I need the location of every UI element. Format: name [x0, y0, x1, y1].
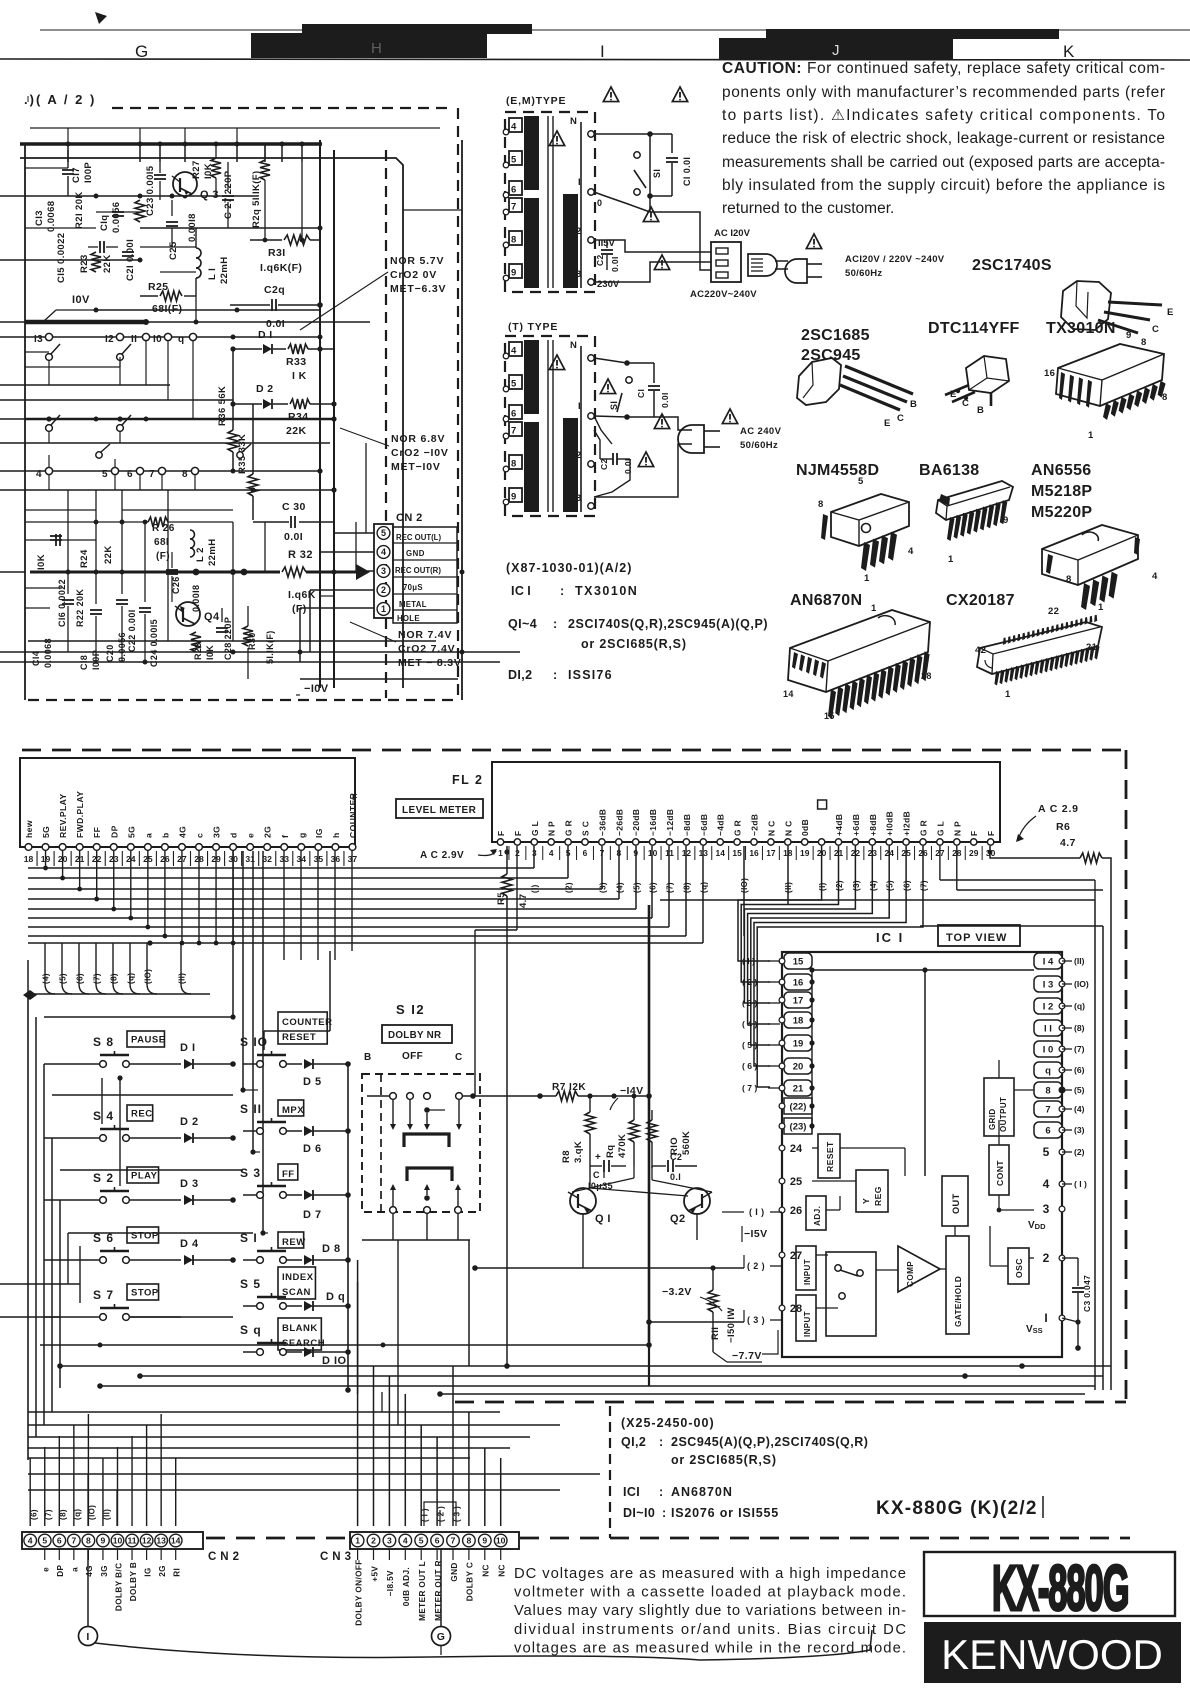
svg-text:N P: N P [547, 821, 557, 836]
svg-text:R 32: R 32 [288, 549, 313, 561]
svg-text:CN 2: CN 2 [396, 512, 423, 524]
svg-text:INDEX: INDEX [282, 1272, 314, 1283]
wire rows mid [25, 384, 170, 386]
svg-text:C20: C20 [105, 644, 115, 662]
svg-text:8: 8 [1141, 337, 1147, 348]
svg-text:N: N [570, 340, 577, 351]
svg-text:.)( A / 2 ): .)( A / 2 ) [24, 92, 96, 107]
svg-text:0.0I: 0.0I [284, 531, 303, 543]
svg-text:(7): (7) [666, 882, 675, 893]
package NJM4558D DIP8 body [831, 494, 909, 546]
svg-text:32: 32 [262, 854, 272, 864]
S12 slider bracket upper [404, 1134, 449, 1147]
svg-text:R27: R27 [191, 160, 202, 179]
svg-text:D 2: D 2 [256, 383, 274, 395]
svg-text:2: 2 [371, 1536, 376, 1546]
svg-text:AN6556: AN6556 [1031, 462, 1092, 479]
svg-text:bly insulated from the supply: bly insulated from the supply circuit) b… [722, 177, 1165, 194]
left block top stub row [30, 127, 440, 129]
leader NOR 7.4V [350, 622, 396, 642]
package 2SC1740S leads [1098, 320, 1138, 333]
IC1 GATE/HOLD box [946, 1236, 969, 1334]
svg-text:−I5V: −I5V [744, 1228, 768, 1240]
svg-text:4G: 4G [177, 826, 187, 838]
IC1 contact switch box [826, 1252, 876, 1336]
IC1 CONT box [989, 1145, 1009, 1195]
package CX20187 pins bottom [995, 671, 1000, 686]
capacitor C23 0.0015 [154, 174, 166, 176]
svg-text:6: 6 [1045, 1126, 1050, 1137]
transformer EM primary core black [524, 116, 539, 190]
svg-text:A C 2.9: A C 2.9 [1038, 803, 1079, 815]
svg-text:8: 8 [467, 1536, 472, 1546]
svg-text:18: 18 [24, 854, 34, 864]
svg-text:MET−6.3V: MET−6.3V [390, 283, 446, 295]
svg-text:7: 7 [1045, 1105, 1050, 1116]
capacitor C2 0.1 [667, 1160, 669, 1172]
ruler black bar J upper slab [766, 29, 1059, 39]
svg-text:I: I [600, 42, 605, 61]
svg-text:(IO): (IO) [88, 1505, 97, 1520]
svg-text:I: I [86, 1631, 89, 1643]
node circle I [87, 1549, 89, 1626]
resistor R36 56K [232, 349, 234, 430]
svg-text:II: II [131, 334, 137, 345]
svg-text:F: F [969, 830, 979, 836]
lower dashed border right [1125, 750, 1128, 1402]
svg-text::: : [659, 1485, 664, 1499]
IC1 right pin boxes [1034, 953, 1062, 969]
svg-text:230V: 230V [597, 279, 620, 290]
svg-text:B: B [910, 399, 917, 410]
svg-text::: : [560, 584, 565, 598]
svg-text:22K: 22K [102, 254, 113, 273]
T warning triangles [600, 379, 615, 394]
transistor Q3 [173, 172, 197, 196]
svg-text:5: 5 [511, 155, 517, 166]
svg-text:BA6138: BA6138 [919, 462, 980, 479]
svg-text:I: I [578, 177, 581, 188]
svg-text:GND: GND [406, 549, 425, 558]
svg-text:R36 56K: R36 56K [217, 386, 228, 426]
svg-text:QI,2: QI,2 [621, 1435, 646, 1449]
svg-text:0.0I: 0.0I [660, 392, 670, 408]
svg-text:2G: 2G [158, 1565, 167, 1577]
svg-text:S I: S I [240, 1231, 258, 1245]
svg-text:7: 7 [511, 202, 516, 213]
svg-text:F: F [986, 830, 996, 836]
wire pin30 to R6 [990, 846, 1080, 858]
svg-text:reduce the risk of electric sh: reduce the risk of electric shock, leaka… [722, 130, 1165, 147]
capacitor C25 0.0018 [166, 221, 178, 223]
svg-text:68I(F): 68I(F) [152, 303, 182, 315]
svg-text:FL 2: FL 2 [452, 773, 483, 787]
verticals to CN2 [29, 1458, 31, 1526]
svg-text:F: F [352, 792, 358, 802]
svg-text:−16dB: −16dB [648, 809, 658, 836]
EM C1 capacitor 0.01 [650, 133, 672, 135]
svg-text:ponents only with manufacturer: ponents only with manufacturer’s recomme… [722, 84, 1165, 101]
svg-text:5: 5 [381, 528, 386, 538]
svg-text:−I0V: −I0V [304, 683, 329, 695]
svg-text:7: 7 [149, 469, 155, 480]
switch levers row 4-8 [96, 452, 102, 458]
svg-text:+8dB: +8dB [868, 814, 878, 836]
svg-text:VSS: VSS [1026, 1324, 1043, 1335]
svg-text:R6: R6 [1056, 821, 1070, 833]
svg-text:1: 1 [355, 1536, 360, 1546]
svg-text:FF: FF [92, 827, 102, 838]
svg-text:KX-880G (K)(2/2: KX-880G (K)(2/2 [876, 1498, 1038, 1519]
AC plug symbol T [678, 425, 704, 453]
svg-text:DI,2: DI,2 [508, 668, 533, 682]
solid wire vertical x462 [461, 140, 463, 700]
svg-text:(8): (8) [59, 1509, 68, 1520]
svg-text:(q): (q) [1074, 1001, 1085, 1011]
svg-text:DP: DP [109, 825, 119, 838]
svg-text:REG: REG [873, 1186, 883, 1206]
svg-text:21: 21 [793, 1084, 804, 1095]
svg-text:KENWΟOD: KENWΟOD [941, 1631, 1163, 1678]
R8 3.9K resistor [589, 1096, 591, 1112]
svg-text:RII: RII [710, 1327, 721, 1340]
svg-text:E: E [884, 418, 891, 429]
svg-text:S q: S q [240, 1323, 262, 1337]
svg-text:0.0068: 0.0068 [46, 201, 57, 232]
svg-text:BLANK: BLANK [282, 1323, 318, 1334]
capacitor C27 220P [222, 195, 234, 197]
svg-text:AN6870N: AN6870N [790, 592, 862, 609]
svg-text:(T) TYPE: (T) TYPE [508, 321, 558, 333]
IC1 ADJ box [806, 1196, 826, 1230]
svg-text:D I: D I [258, 329, 273, 341]
svg-text:METAL: METAL [399, 600, 427, 609]
T C2 capacitor [612, 453, 614, 465]
package TX3010N DIP16 body [1056, 344, 1164, 406]
svg-text:S 7: S 7 [93, 1288, 114, 1302]
wire mesh extra density lower left [28, 1473, 600, 1475]
diode D7 [304, 1190, 313, 1200]
diode D5 [304, 1059, 313, 1069]
Q1 Q2 cross coupling wires [590, 1188, 688, 1196]
svg-text:IC I: IC I [511, 584, 531, 598]
package 2SC1740S TO-92 body [1061, 281, 1111, 330]
svg-text:G R: G R [733, 820, 743, 836]
svg-text:D 6: D 6 [303, 1143, 322, 1155]
svg-text:I2: I2 [105, 334, 114, 345]
A/2 dashed border top [112, 107, 452, 109]
svg-text:(X87-1030-01)(A/2): (X87-1030-01)(A/2) [506, 561, 632, 575]
svg-text:S II: S II [240, 1102, 262, 1116]
R9 470K resistor [633, 1096, 635, 1120]
svg-text:S 4: S 4 [93, 1109, 114, 1123]
svg-text:TX3010N: TX3010N [1046, 320, 1116, 337]
svg-text:0.0I: 0.0I [610, 256, 620, 272]
svg-text:NOR 7.4V: NOR 7.4V [398, 629, 452, 641]
resistor R25 681(F) [160, 291, 182, 301]
svg-text:17: 17 [766, 848, 776, 858]
svg-text:1: 1 [381, 604, 386, 614]
svg-text:R2q 5I.IK(F): R2q 5I.IK(F) [251, 170, 262, 228]
svg-text::: : [659, 1435, 664, 1449]
svg-text:RI: RI [173, 1568, 182, 1577]
transistor Q2 [684, 1188, 710, 1214]
svg-text:(3): (3) [852, 880, 861, 891]
svg-text:0dB: 0dB [800, 819, 810, 836]
AC plug symbol EM [785, 259, 807, 283]
svg-text:G: G [135, 42, 148, 61]
svg-text:16: 16 [1044, 368, 1055, 379]
T wires [594, 416, 627, 417]
svg-text:CrO2 −I0V: CrO2 −I0V [391, 447, 449, 459]
diode output vertical bus right col [347, 1064, 349, 1390]
svg-text:a: a [71, 1567, 80, 1572]
svg-text:(5): (5) [633, 882, 642, 893]
IC1 OUT box [942, 1176, 968, 1226]
wire thick bundle bottom elbow [648, 1345, 650, 1386]
S12 upper contacts [390, 1093, 397, 1100]
svg-text:g: g [297, 832, 307, 838]
svg-text:14: 14 [783, 689, 794, 699]
svg-text:INPUT: INPUT [803, 1259, 812, 1285]
pins row 13-9 [25, 336, 322, 338]
svg-text:R24: R24 [79, 549, 90, 568]
T S1 switch [594, 358, 627, 363]
svg-text:S I2: S I2 [396, 1002, 425, 1017]
svg-text:DC voltages are as measure: DC voltages are as measured with a high … [514, 1566, 906, 1582]
svg-text:(23): (23) [790, 1122, 807, 1133]
svg-text:(7): (7) [920, 880, 929, 891]
T wires to plug [654, 417, 692, 430]
svg-text:GATE/HOLD: GATE/HOLD [954, 1276, 963, 1327]
svg-text:−20dB: −20dB [631, 809, 641, 836]
svg-text:8: 8 [511, 459, 516, 470]
svg-text:DOLBY ON/OFF: DOLBY ON/OFF [354, 1559, 363, 1626]
svg-text:CrO2 0V: CrO2 0V [390, 269, 437, 281]
svg-text:S C: S C [581, 821, 591, 836]
svg-text:KX-880G: KX-880G [992, 1552, 1128, 1624]
svg-text:C: C [962, 398, 969, 409]
svg-text:I00P: I00P [83, 162, 94, 183]
svg-text:S 3: S 3 [240, 1166, 261, 1180]
svg-text:H: H [371, 40, 382, 57]
svg-text:q: q [1045, 1066, 1051, 1077]
junction dots upper [138, 142, 143, 147]
svg-text:11: 11 [128, 1536, 137, 1546]
svg-text:6: 6 [511, 185, 516, 196]
svg-text:0.I: 0.I [670, 1172, 681, 1182]
block solid top border [20, 158, 403, 688]
svg-text:d: d [229, 832, 239, 838]
svg-text:Values may vary slightly d: Values may vary slightly due to variatio… [514, 1603, 906, 1619]
svg-text:DOLBY B/C: DOLBY B/C [114, 1563, 123, 1611]
svg-text:NOR 5.7V: NOR 5.7V [390, 255, 444, 267]
keyboard pin drop wires [45, 851, 47, 868]
top thick bus [20, 142, 322, 145]
svg-text:3: 3 [381, 566, 386, 576]
svg-text:0.00I8: 0.00I8 [191, 585, 201, 612]
IC1 OSC box [1008, 1248, 1029, 1284]
svg-text:( 6 ): ( 6 ) [742, 1061, 757, 1071]
svg-text:ACI20V / 220V ~240V: ACI20V / 220V ~240V [845, 254, 945, 265]
resistor R21 20K [135, 200, 145, 222]
ruler black bar H upper slab [302, 24, 532, 34]
lower bus horizontals [60, 1365, 1111, 1367]
transformer T primary core black [524, 340, 539, 414]
svg-text:5I.IK(F): 5I.IK(F) [265, 630, 275, 664]
EM S1 switch [594, 133, 650, 135]
svg-text:8: 8 [1162, 392, 1168, 403]
svg-text:FF: FF [282, 1169, 295, 1180]
svg-text:DOLBY NR: DOLBY NR [388, 1030, 441, 1041]
svg-text:4: 4 [549, 848, 554, 858]
svg-text:LEVEL METER: LEVEL METER [402, 805, 477, 816]
svg-text:(II): (II) [178, 973, 187, 984]
svg-text:AN6870N: AN6870N [671, 1485, 733, 1499]
extra junction dots left block [66, 142, 71, 147]
svg-text:+5V: +5V [370, 1566, 379, 1582]
svg-text:CI: CI [636, 389, 646, 398]
svg-text:DOLBY C: DOLBY C [466, 1562, 475, 1602]
svg-text:RESET: RESET [282, 1032, 316, 1043]
transformer T core separator lines [547, 340, 549, 512]
S12 wiring to bus [367, 1095, 389, 1097]
package DTC114YFF body [966, 356, 1009, 393]
svg-text:(2): (2) [835, 880, 844, 891]
ruler corner mark [95, 12, 107, 24]
svg-text:S 5: S 5 [240, 1277, 261, 1291]
svg-text:PAUSE: PAUSE [131, 1035, 166, 1046]
LEVEL METER boxed label [396, 799, 483, 818]
svg-text:4: 4 [511, 346, 517, 357]
R11 150 1W resistor [712, 1268, 714, 1290]
svg-text:6: 6 [511, 409, 516, 420]
svg-text:( 5 ): ( 5 ) [742, 1040, 757, 1050]
svg-text:to parts list). ⚠Indicates saf: to parts list). ⚠Indicates safety critic… [722, 107, 1165, 124]
wires into CN2 [334, 532, 374, 534]
left block lower extra caps and wires [50, 535, 62, 537]
svg-text:FWD.PLAY: FWD.PLAY [75, 791, 85, 838]
svg-text:I0V: I0V [72, 294, 90, 306]
svg-text:I.q6K(F): I.q6K(F) [260, 262, 302, 274]
svg-text:D I: D I [180, 1042, 196, 1054]
wire to input 2 [475, 1267, 744, 1269]
svg-text:(q): (q) [73, 1509, 82, 1520]
AC connector symbol [748, 254, 777, 276]
svg-text:CONT: CONT [995, 1160, 1005, 1186]
svg-text:2: 2 [576, 450, 582, 461]
svg-text:1: 1 [871, 603, 877, 614]
svg-text:NJM4558D: NJM4558D [796, 462, 879, 479]
long verticals above CN3 [357, 1260, 359, 1394]
wire row y490 [25, 489, 334, 491]
keyboard connector box [20, 758, 355, 847]
svg-text:(6): (6) [1074, 1065, 1085, 1075]
svg-text:−6dB: −6dB [699, 814, 709, 836]
svg-text:(q): (q) [127, 973, 136, 984]
svg-text:50/60Hz: 50/60Hz [845, 268, 882, 279]
svg-text::: : [553, 617, 558, 631]
svg-text:OUT: OUT [951, 1193, 961, 1214]
svg-text:GRID: GRID [988, 1108, 997, 1130]
svg-text:( 2 ): ( 2 ) [742, 977, 757, 987]
resistor R29 51.1K(F) [260, 160, 270, 180]
svg-text:7: 7 [71, 1536, 76, 1546]
svg-text:5: 5 [102, 469, 108, 480]
svg-text:E: E [1167, 307, 1174, 318]
svg-text:REW: REW [282, 1237, 306, 1248]
svg-text:( I ): ( I ) [1074, 1179, 1087, 1189]
R10 560K resistor [651, 1110, 653, 1120]
svg-text:ISSI76: ISSI76 [568, 668, 613, 682]
svg-text:0.0I: 0.0I [623, 458, 633, 474]
svg-text:(6): (6) [649, 882, 658, 893]
IC1 COMP triangle [898, 1246, 940, 1292]
svg-text:OUTPUT: OUTPUT [999, 1097, 1008, 1132]
svg-text:CI5 0.0022: CI5 0.0022 [56, 233, 67, 283]
svg-text:(5): (5) [886, 880, 895, 891]
svg-text:R3I: R3I [268, 247, 286, 259]
capacitor C21 0.001 [122, 251, 134, 253]
A/2 dashed border right [457, 108, 459, 698]
CN3 labels below [357, 1549, 359, 1560]
svg-text:C25: C25 [168, 241, 179, 260]
svg-text:1: 1 [1088, 430, 1094, 441]
S12 slider bracket lower [407, 1168, 452, 1181]
svg-text:C3 0.047: C3 0.047 [1082, 1275, 1092, 1312]
svg-text:COMP: COMP [906, 1261, 915, 1287]
svg-text:b: b [160, 832, 170, 838]
package AN6556 pins [1081, 583, 1090, 610]
svg-text:F: F [496, 830, 506, 836]
svg-text:+4dB: +4dB [834, 814, 844, 836]
svg-text:−4dB: −4dB [716, 814, 726, 836]
ruler baseline [0, 59, 1190, 60]
svg-text:16: 16 [793, 978, 804, 989]
left block extra density wires [25, 167, 68, 169]
svg-text:a: a [143, 833, 153, 838]
svg-text:−12dB: −12dB [665, 809, 675, 836]
svg-text:( I ): ( I ) [421, 1508, 430, 1522]
svg-text:−2dB: −2dB [750, 814, 760, 836]
svg-text:1: 1 [498, 848, 503, 858]
svg-text:h: h [331, 832, 341, 838]
svg-text:22K: 22K [103, 545, 114, 564]
svg-text:C I: C I [593, 1170, 606, 1180]
svg-text:7: 7 [451, 1536, 456, 1546]
svg-text:(E,M)TYPE: (E,M)TYPE [506, 95, 566, 107]
package DTC114YFF leads [945, 385, 969, 395]
svg-text:4: 4 [28, 1536, 33, 1546]
node circle G [440, 1549, 442, 1626]
svg-text:(II): (II) [102, 1509, 111, 1520]
svg-text:S 2: S 2 [93, 1171, 114, 1185]
svg-text:I K: I K [292, 370, 307, 382]
svg-text:(4): (4) [869, 880, 878, 891]
svg-text:12: 12 [142, 1536, 152, 1546]
svg-text:Q I: Q I [595, 1213, 611, 1225]
svg-text:e: e [42, 1567, 51, 1572]
ruler black bar J [719, 38, 953, 60]
svg-text:8: 8 [182, 469, 188, 480]
svg-text:4: 4 [1152, 571, 1158, 582]
svg-text:I 3: I 3 [1043, 980, 1054, 991]
pins row 4-8 [25, 470, 322, 472]
svg-text:8: 8 [511, 235, 516, 246]
svg-text:10: 10 [113, 1536, 123, 1546]
svg-text:15: 15 [824, 711, 835, 721]
svg-text:14: 14 [171, 1536, 181, 1546]
